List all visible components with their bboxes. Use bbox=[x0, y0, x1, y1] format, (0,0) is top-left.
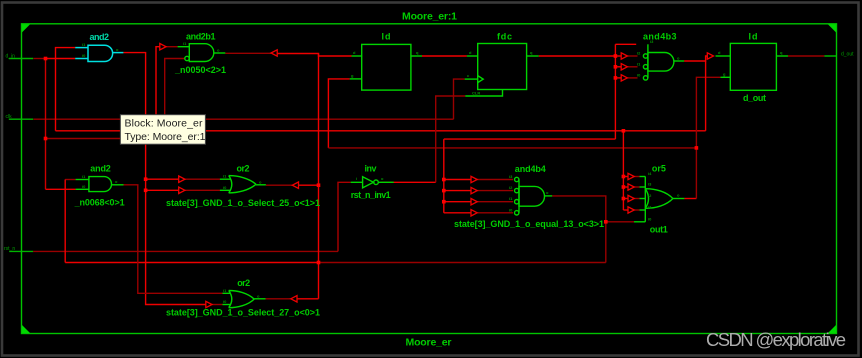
junction fdc Q bus I2 bbox=[614, 54, 618, 58]
junction or5 I4 bbox=[622, 175, 626, 179]
junction or5 I2 bbox=[622, 197, 626, 201]
wire and2 top input feedback vertical bbox=[56, 48, 76, 131]
and2b1 U2 pin labels bbox=[183, 41, 220, 53]
port clk stub bbox=[9, 118, 33, 120]
and4b3 U7 gate body bbox=[648, 53, 674, 72]
wire _n0068 I1 riser bbox=[64, 180, 66, 263]
latch ld1 body bbox=[362, 44, 411, 90]
svg-text:out1: out1 bbox=[650, 224, 668, 234]
and2 U1 input stub I0 bbox=[75, 58, 88, 60]
and4b4 U8 bubble I3 bbox=[515, 177, 519, 181]
junction fdc Q bus I1 bbox=[614, 65, 618, 69]
arrow or2b I0 bbox=[206, 301, 212, 307]
wire and4b4 I0 dark segment bbox=[477, 212, 513, 214]
wire d_in to and2 input bbox=[46, 58, 76, 60]
latch ld1 input stub D bbox=[352, 55, 362, 57]
and4b3 U7 pin labels bbox=[637, 39, 680, 77]
junction or2a I1 bbox=[144, 177, 148, 181]
wire and4b3 I0 branch bbox=[615, 77, 621, 79]
wire ld1 output to fdc D bbox=[422, 55, 467, 57]
arrow and4b4 I0 bbox=[471, 210, 477, 216]
and4b4 U8 input rail bbox=[518, 180, 520, 213]
wire clk rail bbox=[34, 118, 454, 120]
wire rst_n rail bbox=[33, 250, 338, 252]
and2b1 U2 gate body bbox=[189, 44, 213, 62]
svg-text:state[3]_GND_1_o_Select_27_o<0: state[3]_GND_1_o_Select_27_o<0>1 bbox=[166, 307, 320, 317]
wire feedback rail bottom dark bbox=[319, 262, 606, 264]
wire or5 I2 dark segment bbox=[634, 198, 639, 200]
or5 U9 pin labels bbox=[648, 171, 680, 221]
or5 U9 input stub I2 bbox=[640, 198, 646, 200]
tooltip box bbox=[120, 115, 205, 145]
svg-text:or2: or2 bbox=[237, 278, 250, 288]
wire clk riser to fdc bbox=[454, 79, 465, 119]
border corner mark bottom-left bbox=[22, 325, 30, 333]
wire or2a output dark bbox=[266, 184, 292, 186]
wire and4b4 I2 dark segment bbox=[477, 190, 513, 192]
svg-text:_n0050<2>1: _n0050<2>1 bbox=[174, 65, 226, 75]
wire state rail to and4b4 bus bbox=[444, 138, 616, 140]
wire and4b4 I3 dark segment bbox=[477, 179, 513, 181]
arrow or2b output bbox=[291, 296, 297, 302]
wire rst_n riser to inv bbox=[338, 182, 351, 251]
junction feedback rail bbox=[317, 261, 321, 265]
wire and4b3 I1 dark segment bbox=[627, 66, 637, 68]
wire or2a I0 branch bbox=[146, 189, 179, 191]
arrow or5 I4 bbox=[628, 173, 634, 179]
svg-text:CLR: CLR bbox=[472, 91, 480, 96]
junction or2a output bbox=[317, 183, 321, 187]
or2 U4 input stub I1 bbox=[220, 178, 231, 180]
and4b3 U7 output stub bbox=[674, 60, 684, 62]
and4b4 U8 bubble I2 bbox=[515, 188, 519, 192]
wire and2 output bbox=[123, 53, 205, 305]
and4b4 U8 bubble I0 bbox=[515, 211, 519, 215]
wire _n0068 output bbox=[124, 185, 223, 293]
wire and4b4 I3 branch bbox=[444, 179, 471, 181]
arrow or5 I2 bbox=[628, 195, 634, 201]
svg-text:state[3]_GND_1_o_equal_13_o<3>: state[3]_GND_1_o_equal_13_o<3>1 bbox=[454, 219, 604, 229]
flipflop fdc pin labels bbox=[467, 50, 533, 96]
junction and4b4 I3 bbox=[442, 178, 446, 182]
or2 U4 output stub bbox=[256, 184, 266, 186]
or5 U9 input rail bbox=[644, 177, 646, 222]
svg-text:Moore_er:1: Moore_er:1 bbox=[402, 11, 457, 23]
junction fdc Q bus I0 bbox=[614, 76, 618, 80]
svg-text:rst_n_inv1: rst_n_inv1 bbox=[351, 190, 391, 200]
junction and4b4 I1 bbox=[442, 200, 446, 204]
and2b1 U2 input bubble bbox=[185, 56, 189, 60]
or5 U9 input stub I1 bbox=[640, 209, 646, 211]
arrow or5 I1 bbox=[628, 207, 634, 213]
svg-text:i: i bbox=[356, 176, 357, 181]
wire and4b3 output bbox=[684, 56, 707, 61]
wire and4b4 output bbox=[552, 196, 606, 263]
svg-text:or2: or2 bbox=[237, 164, 250, 174]
wire or5 I4 dark segment bbox=[634, 176, 639, 178]
and2b1 U2 input stub I1 bbox=[178, 46, 190, 48]
inverter U6 pin labels bbox=[356, 176, 384, 181]
svg-text:and2b1: and2b1 bbox=[186, 32, 216, 42]
or5 U9 input stub I4 bbox=[640, 176, 646, 178]
and2b1 U2 output stub bbox=[214, 52, 226, 54]
inverter U6 bubble bbox=[374, 180, 379, 185]
and4b3 U7 bubble I2 bbox=[643, 54, 647, 58]
arrow and2b1 output bbox=[271, 50, 277, 56]
flipflop fdc body bbox=[478, 44, 527, 90]
wire d_in dark segment bbox=[34, 58, 46, 60]
wire or2b output bright bbox=[297, 298, 318, 300]
wire ld2 output dark bbox=[788, 55, 824, 57]
flipflop fdc input stub D bbox=[467, 55, 478, 57]
svg-text:state[3]_GND_1_o_Select_25_o<1: state[3]_GND_1_o_Select_25_o<1>1 bbox=[166, 198, 320, 208]
wire and4b3 I1 branch bbox=[615, 66, 621, 68]
svg-text:Moore_er: Moore_er bbox=[406, 337, 452, 349]
svg-text:CSDN @explorative: CSDN @explorative bbox=[706, 329, 846, 350]
wire out1 rail bbox=[328, 147, 696, 149]
arrow or5 I3 bbox=[628, 184, 634, 190]
wire or2a I1 branch bbox=[146, 178, 179, 180]
flipflop fdc output stub Q bbox=[527, 55, 539, 57]
border corner mark top-right bbox=[828, 24, 836, 32]
or5 U9 input stub I3 bbox=[640, 186, 646, 188]
wire and4b4 I0 branch bbox=[444, 212, 471, 214]
svg-text:d_in: d_in bbox=[6, 53, 16, 59]
arrow and4b3 I2 bbox=[621, 53, 627, 59]
and4b4 U8 gate body bbox=[519, 186, 544, 206]
or2 U5 input stub I1 bbox=[223, 292, 232, 294]
and4b4 U8 bubble I1 bbox=[515, 200, 519, 204]
svg-text:and2: and2 bbox=[90, 32, 110, 42]
latch ld1 pin labels bbox=[351, 50, 419, 78]
flipflop fdc CLR pin elbow bbox=[465, 90, 502, 97]
port rst_n stub bbox=[9, 250, 33, 252]
latch ld2 input stub G bbox=[721, 76, 731, 78]
arrow and2b1 I1 bbox=[160, 44, 166, 50]
arrow ld2 D input bbox=[707, 53, 713, 59]
wire feedback rail bottom bright bbox=[65, 262, 318, 264]
svg-text:Type: Moore_er:1: Type: Moore_er:1 bbox=[125, 131, 206, 143]
wire or2b I0 arrow tail bbox=[212, 304, 223, 306]
and4b4 U8 pin labels bbox=[509, 174, 549, 212]
or5 U9 input stub I0 bbox=[634, 221, 645, 223]
and4b3 U7 bubble I1 bbox=[643, 65, 647, 69]
wire and4b4 output to or5 I0 bbox=[606, 221, 634, 223]
junction d_in branch bbox=[44, 137, 48, 141]
svg-text:rst_n: rst_n bbox=[4, 246, 15, 252]
svg-text:d_out: d_out bbox=[841, 51, 854, 57]
and2 U3 pin labels bbox=[82, 174, 118, 189]
latch ld2 input stub D bbox=[716, 55, 731, 57]
wire or2a I1 dark segment bbox=[185, 178, 220, 180]
svg-text:inv: inv bbox=[365, 163, 377, 173]
and2 U1 input stub I1 bbox=[75, 47, 88, 49]
wire and2b1 net vertical bbox=[318, 54, 320, 299]
wire inv output bbox=[380, 181, 435, 183]
wire or5 I1 branch bbox=[623, 209, 627, 211]
wire d_in to _n0068 input bbox=[46, 188, 76, 190]
wire or2a output bright bbox=[299, 184, 319, 186]
wire and4b3 I2 dark segment bbox=[627, 55, 637, 57]
wire ld2 output to border bbox=[824, 55, 836, 57]
wire or5 I1 dark segment bbox=[634, 209, 639, 211]
latch ld2 body bbox=[730, 43, 776, 90]
latch ld1 output stub Q bbox=[411, 55, 422, 57]
and2 U1 output stub bbox=[113, 52, 124, 54]
wire state feedback rail bbox=[56, 130, 706, 132]
and2 U1 pin labels bbox=[82, 42, 119, 58]
wire and2b1 I1 dark segment bbox=[166, 46, 178, 48]
arrow and4b4 I1 bbox=[471, 199, 477, 205]
arrow and4b3 I0 bbox=[621, 75, 627, 81]
or5 U9 gate body bbox=[645, 189, 673, 209]
junction out1 rail bbox=[695, 146, 699, 150]
wire or5 I3 dark segment bbox=[634, 186, 639, 188]
or5 U9 output stub bbox=[673, 198, 685, 200]
inverter U6 triangle bbox=[363, 177, 374, 188]
svg-text:d_out: d_out bbox=[743, 93, 766, 103]
or2 U5 gate body bbox=[229, 291, 255, 308]
wire and2b1 output dark bbox=[225, 52, 271, 54]
wire inv output to fdc CLR bbox=[436, 96, 466, 182]
arrow and4b4 I3 bbox=[471, 176, 477, 182]
or2 U4 pin labels bbox=[223, 174, 262, 190]
or2 U5 input stub I0 bbox=[223, 304, 232, 306]
latch ld2 output stub Q bbox=[776, 55, 788, 57]
junction d_in port bbox=[44, 57, 48, 61]
svg-text:ld: ld bbox=[749, 32, 758, 42]
wire and4b4 I1 branch bbox=[444, 201, 471, 203]
wire fdc Q distribution bus bbox=[614, 44, 616, 139]
and4b3 U7 bubble I0 bbox=[643, 76, 647, 80]
inverter U6 output stub bbox=[378, 181, 393, 183]
and2 U1 gate body bbox=[88, 45, 113, 61]
junction or5 I3 bbox=[622, 185, 626, 189]
wire or5 bus bbox=[622, 131, 624, 210]
wire or5 I3 branch bbox=[623, 186, 627, 188]
svg-text:ld: ld bbox=[382, 32, 391, 42]
wire fdc Q bbox=[539, 55, 616, 57]
and2 U3 output stub bbox=[112, 184, 124, 186]
flipflop fdc clock stub bbox=[465, 78, 478, 80]
or2 U4 input stub I0 bbox=[220, 189, 231, 191]
wire and2b1 I0 riser bbox=[165, 59, 185, 121]
svg-text:or5: or5 bbox=[652, 164, 666, 174]
or2 U5 output stub bbox=[254, 298, 265, 300]
wire and4b4 bus bbox=[443, 139, 445, 213]
and2 U3 input stub I0 bbox=[76, 188, 89, 190]
junction and4b4 output bbox=[604, 220, 608, 224]
wire ld1 gate input riser bbox=[328, 79, 349, 148]
wire and2b1 output to ld bbox=[278, 54, 352, 57]
port d_in stub bbox=[9, 58, 33, 60]
wire fdc Q bus top to and4b3 I3 bbox=[615, 43, 636, 45]
wire or5 output bbox=[684, 198, 696, 200]
and2 U3 input stub I1 bbox=[76, 179, 89, 181]
svg-text:and2: and2 bbox=[90, 163, 111, 173]
wire and4b4 I2 branch bbox=[444, 190, 471, 192]
or2 U4 gate body bbox=[229, 176, 256, 193]
inverter U6 input stub bbox=[351, 181, 363, 183]
svg-text:Block: Moore_er: Block: Moore_er bbox=[125, 117, 204, 129]
or2 U5 pin labels bbox=[223, 288, 260, 304]
wire and4b4 I1 dark segment bbox=[477, 201, 513, 203]
wire and4b3 I0 dark segment bbox=[627, 77, 637, 79]
wire d_in vertical bbox=[45, 59, 47, 190]
and4b3 U7 input rail bbox=[647, 44, 649, 78]
latch ld2 pin labels bbox=[718, 50, 783, 76]
wire out1 riser to ld2 bbox=[696, 77, 720, 198]
wire d_in branch behind tooltip bbox=[46, 138, 165, 140]
wire or5 I2 branch bbox=[623, 198, 627, 200]
svg-text:clk: clk bbox=[6, 114, 13, 120]
svg-text:and4b4: and4b4 bbox=[515, 164, 546, 174]
svg-text:fdc: fdc bbox=[497, 32, 512, 42]
arrow and4b3 I1 bbox=[621, 64, 627, 70]
and4b4 U8 output stub bbox=[545, 195, 552, 197]
arrow or2a output bbox=[292, 182, 298, 188]
junction or2a I0 bbox=[144, 189, 148, 193]
arrow or2a I0 bbox=[179, 187, 185, 193]
junction and4b4 I2 bbox=[442, 189, 446, 193]
wire or5 I4 branch bbox=[623, 176, 627, 178]
wire or2b output dark bbox=[266, 298, 291, 300]
wire and2b1 I1 riser bbox=[156, 47, 160, 120]
svg-text:and4b3: and4b3 bbox=[643, 32, 677, 42]
border corner mark bottom-right bbox=[828, 325, 836, 333]
wire and4b3 I2 branch bbox=[615, 55, 621, 57]
wire _n0068 I1 dark segment bbox=[65, 179, 75, 181]
svg-text:_n0068<0>1: _n0068<0>1 bbox=[74, 197, 125, 207]
junction or5 bus top bbox=[622, 129, 626, 133]
arrow or2a I1 bbox=[179, 176, 185, 182]
arrow and4b4 I2 bbox=[471, 187, 477, 193]
and2 U3 gate body bbox=[89, 177, 112, 192]
latch ld1 input stub G bbox=[350, 78, 362, 80]
border corner mark top-left bbox=[22, 24, 30, 32]
wire and4b3 output feedback drop bbox=[705, 61, 707, 131]
wire or2a I0 dark segment bbox=[185, 189, 220, 191]
flipflop fdc clock mark bbox=[478, 76, 484, 83]
